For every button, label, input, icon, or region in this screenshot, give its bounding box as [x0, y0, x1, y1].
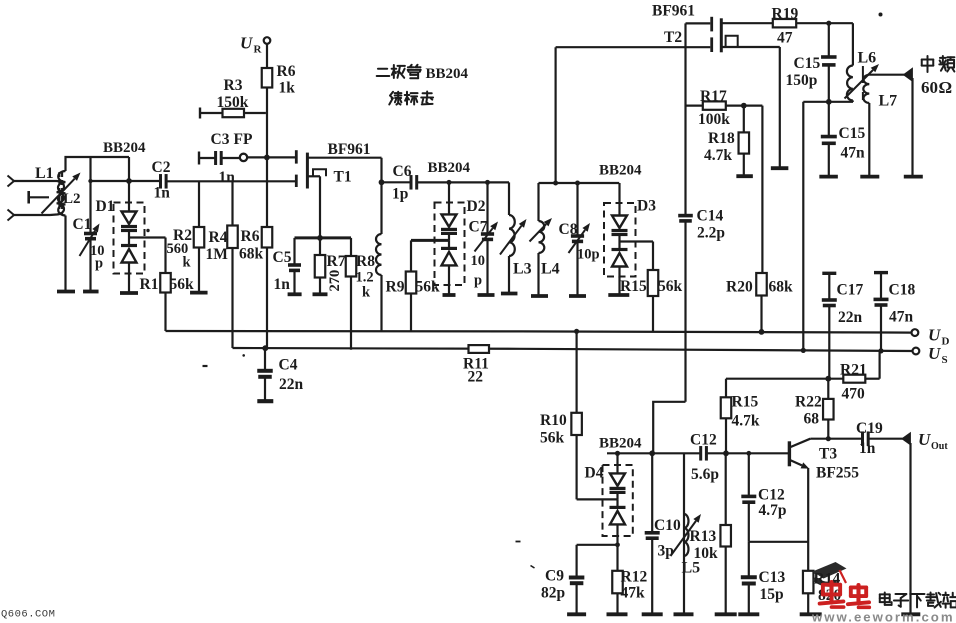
svg-text:S: S: [942, 354, 948, 366]
svg-text:BB204: BB204: [103, 140, 146, 156]
svg-text:R7: R7: [327, 253, 346, 270]
svg-text:22n: 22n: [838, 309, 863, 326]
svg-text:1n: 1n: [154, 185, 171, 202]
svg-text:1M: 1M: [206, 246, 229, 263]
svg-text:D4: D4: [585, 465, 604, 482]
svg-text:k: k: [362, 285, 371, 301]
svg-text:5.6p: 5.6p: [691, 466, 719, 483]
svg-text:L7: L7: [879, 93, 898, 110]
svg-text:R3: R3: [224, 77, 243, 94]
svg-text:15p: 15p: [760, 586, 784, 603]
svg-text:C12: C12: [758, 487, 785, 504]
svg-text:D2: D2: [467, 198, 486, 215]
svg-text:R18: R18: [708, 130, 735, 147]
svg-text:C12: C12: [690, 432, 717, 449]
svg-text:L1: L1: [35, 165, 54, 182]
svg-text:FP: FP: [234, 131, 253, 148]
svg-text:68k: 68k: [769, 279, 794, 296]
svg-text:C18: C18: [889, 282, 916, 299]
svg-text:www.eeworm.com: www.eeworm.com: [811, 610, 955, 623]
svg-text:R4: R4: [209, 229, 228, 246]
svg-text:k: k: [183, 255, 192, 271]
svg-text:47n: 47n: [889, 309, 914, 326]
svg-text:R13: R13: [690, 528, 717, 545]
svg-text:C5: C5: [273, 249, 292, 266]
svg-text:Out: Out: [931, 441, 948, 452]
svg-text:C7: C7: [469, 219, 488, 236]
svg-text:L5: L5: [682, 560, 701, 577]
svg-text:100k: 100k: [698, 111, 730, 128]
svg-text:R8: R8: [356, 253, 375, 270]
svg-text:1n: 1n: [859, 440, 876, 457]
svg-text:1k: 1k: [279, 80, 296, 97]
svg-text:U: U: [240, 34, 253, 53]
svg-text:C8: C8: [559, 221, 578, 238]
svg-text:R20: R20: [726, 279, 753, 296]
svg-text:D3: D3: [637, 198, 656, 215]
svg-text:C15: C15: [794, 55, 821, 72]
svg-text:1n: 1n: [219, 169, 236, 186]
svg-text:47: 47: [777, 30, 793, 47]
svg-text:4.7k: 4.7k: [732, 413, 760, 430]
svg-text:C17: C17: [837, 282, 864, 299]
svg-text:56k: 56k: [658, 278, 683, 295]
svg-text:22: 22: [468, 369, 484, 386]
svg-text:150p: 150p: [786, 72, 818, 89]
svg-text:U: U: [928, 344, 941, 363]
svg-text:2.2p: 2.2p: [697, 225, 725, 242]
svg-text:BB204: BB204: [426, 66, 469, 82]
svg-text:3p: 3p: [658, 543, 674, 560]
svg-text:68k: 68k: [239, 246, 264, 263]
svg-text:R21: R21: [840, 362, 867, 379]
svg-text:C14: C14: [697, 208, 724, 225]
svg-text:C2: C2: [152, 159, 171, 176]
svg-text:47n: 47n: [841, 145, 866, 162]
svg-text:C4: C4: [279, 357, 298, 374]
svg-text:L3: L3: [513, 261, 532, 278]
svg-text:L6: L6: [858, 50, 877, 67]
svg-text:R9: R9: [386, 279, 405, 296]
svg-text:C15: C15: [839, 125, 866, 142]
svg-text:R19: R19: [772, 6, 799, 23]
svg-text:R6: R6: [241, 228, 260, 245]
svg-text:C13: C13: [759, 569, 786, 586]
svg-text:R10: R10: [540, 412, 567, 429]
svg-text:D: D: [942, 336, 950, 348]
svg-text:R1: R1: [140, 276, 159, 293]
svg-text:T3: T3: [819, 446, 837, 463]
svg-text:1.2: 1.2: [356, 270, 374, 286]
svg-text:R: R: [254, 44, 263, 56]
svg-text:470: 470: [842, 386, 866, 403]
svg-text:L2: L2: [63, 191, 81, 207]
svg-text:47k: 47k: [621, 585, 646, 602]
svg-text:BB204: BB204: [428, 160, 471, 176]
svg-text:C10: C10: [654, 517, 681, 534]
svg-text:D1: D1: [96, 198, 115, 215]
svg-text:1n: 1n: [274, 276, 291, 293]
svg-text:T1: T1: [334, 169, 352, 186]
svg-text:150k: 150k: [217, 94, 249, 111]
svg-text:10p: 10p: [577, 247, 600, 263]
svg-text:R17: R17: [700, 88, 727, 105]
svg-text:p: p: [95, 256, 103, 272]
svg-text:56k: 56k: [170, 276, 195, 293]
svg-text:56k: 56k: [416, 279, 441, 296]
svg-text:4.7k: 4.7k: [704, 147, 732, 164]
svg-text:p: p: [474, 273, 482, 289]
svg-text:C6: C6: [393, 163, 412, 180]
svg-text:R15: R15: [620, 278, 647, 295]
svg-text:BB204: BB204: [599, 436, 642, 452]
svg-text:22n: 22n: [279, 376, 304, 393]
svg-text:1p: 1p: [392, 186, 408, 203]
svg-text:56k: 56k: [540, 430, 565, 447]
svg-text:Ω: Ω: [939, 78, 953, 97]
svg-text:60: 60: [921, 78, 938, 97]
svg-text:Q606.COM: Q606.COM: [1, 609, 55, 621]
svg-text:4.7p: 4.7p: [759, 502, 787, 519]
svg-text:R22: R22: [795, 394, 822, 411]
svg-text:L4: L4: [541, 261, 560, 278]
svg-text:C3: C3: [211, 131, 230, 148]
svg-text:68: 68: [804, 411, 820, 428]
svg-text:BF961: BF961: [652, 3, 695, 20]
svg-text:R15: R15: [732, 394, 759, 411]
svg-text:10: 10: [471, 253, 486, 269]
svg-text:BF961: BF961: [328, 141, 371, 158]
svg-text:C1: C1: [73, 216, 92, 233]
svg-text:270: 270: [327, 270, 343, 292]
svg-text:82p: 82p: [541, 585, 565, 602]
svg-text:BB204: BB204: [599, 163, 642, 179]
svg-text:R12: R12: [621, 569, 648, 586]
svg-text:C19: C19: [856, 420, 883, 437]
svg-text:U: U: [918, 430, 931, 449]
svg-text:T2: T2: [664, 29, 682, 46]
svg-text:U: U: [928, 326, 941, 345]
svg-text:BF255: BF255: [816, 465, 859, 482]
svg-text:R6: R6: [277, 63, 296, 80]
svg-text:C9: C9: [545, 568, 564, 585]
